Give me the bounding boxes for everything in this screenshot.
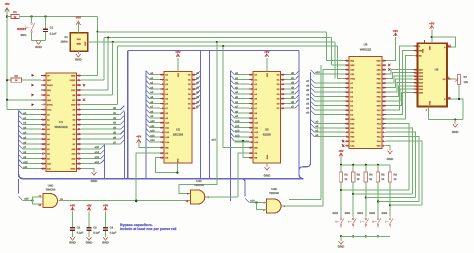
svg-text:C3: C3 [93,227,97,230]
svg-text:VCC: VCC [177,72,180,77]
svg-text:X1: X1 [64,35,68,39]
svg-text:10k: 10k [464,81,469,84]
svg-text:+5V: +5V [338,149,343,153]
svg-text:a14: a14 [150,139,155,142]
svg-text:+5V: +5V [175,50,180,54]
svg-text:U6: U6 [435,68,439,72]
svg-text:+5V: +5V [103,204,108,208]
svg-text:VDD: VDD [429,45,432,50]
svg-text:a10: a10 [235,120,240,123]
svg-text:U5: U5 [364,42,368,46]
svg-text:R4: R4 [369,173,373,176]
svg-text:VCC: VCC [47,109,52,112]
svg-text:a11: a11 [23,166,28,169]
svg-text:0.1µF: 0.1µF [77,232,84,235]
svg-text:VDD: VDD [376,59,381,62]
svg-text:a15: a15 [95,146,100,149]
svg-text:U1: U1 [59,120,63,124]
svg-text:SW4: SW4 [357,212,363,215]
svg-text:R7: R7 [464,76,468,79]
svg-text:a12: a12 [150,130,155,133]
svg-text:SW2: SW2 [332,212,338,215]
svg-text:R6: R6 [394,173,398,176]
svg-text:+5V: +5V [429,22,434,26]
svg-text:IRQ: IRQ [47,89,51,92]
svg-text:R2: R2 [14,75,18,78]
svg-text:a11: a11 [150,125,155,128]
svg-text:R/W: R/W [350,64,354,67]
svg-text:GND: GND [71,167,76,170]
svg-text:+5V: +5V [76,15,81,19]
svg-text:GND: GND [86,241,94,245]
svg-text:a10: a10 [150,120,155,123]
svg-text:a10: a10 [23,161,28,164]
svg-text:0.1µF: 0.1µF [50,32,57,35]
svg-text:VO: VO [442,78,445,81]
svg-text:VCC: VCC [266,72,269,77]
svg-text:74HC00: 74HC00 [46,188,56,191]
svg-text:GND: GND [338,245,346,249]
svg-text:U3: U3 [265,128,269,132]
svg-text:R3: R3 [357,173,361,176]
svg-text:VCC: VCC [77,38,82,41]
svg-text:U4D: U4D [48,184,54,188]
svg-text:W65C22: W65C22 [360,47,372,51]
svg-text:Include at least one per power: Include at least one per power rail [120,227,176,231]
svg-text:GND: GND [91,179,99,183]
svg-text:SYNC: SYNC [47,104,53,107]
svg-text:NC: NC [72,99,76,102]
svg-text:PH2O: PH2O [70,79,76,82]
svg-text:R/W: R/W [419,50,423,53]
svg-text:SW1: SW1 [20,33,27,37]
svg-text:RES: RES [71,74,76,77]
svg-text:SW6: SW6 [381,212,387,215]
svg-text:GND: GND [266,154,269,159]
svg-text:NMI: NMI [47,99,51,102]
svg-text:RES: RES [350,118,355,121]
svg-text:a14: a14 [95,151,100,154]
svg-text:RESET: RESET [17,27,27,31]
svg-text:GND: GND [35,45,43,49]
svg-text:a14: a14 [211,138,216,141]
svg-text:GND: GND [264,174,272,178]
svg-text:+5V: +5V [136,135,141,139]
svg-text:W65C02S: W65C02S [55,125,68,129]
svg-text:GND: GND [76,43,81,46]
svg-text:GND: GND [452,130,460,134]
svg-text:SW5: SW5 [369,212,375,215]
svg-text:a13: a13 [235,134,240,137]
svg-text:1MHz: 1MHz [60,40,68,44]
svg-text:+5V: +5V [393,29,398,33]
svg-text:GND: GND [387,157,395,161]
svg-text:GND: GND [176,158,179,163]
svg-text:+5V: +5V [264,50,269,54]
svg-text:R5: R5 [381,173,385,176]
svg-text:SO: SO [72,84,75,87]
svg-text:IRQ: IRQ [350,59,354,62]
svg-text:74HC00: 74HC00 [269,192,279,195]
svg-text:GND: GND [69,241,77,245]
svg-text:R1: R1 [13,10,17,14]
svg-text:62256: 62256 [263,132,271,136]
svg-text:+5V: +5V [70,204,75,208]
svg-text:74HC00: 74HC00 [194,184,204,187]
svg-text:a12: a12 [95,161,100,164]
svg-text:VSS: VSS [377,145,382,148]
svg-text:GND: GND [102,241,110,245]
svg-text:a11: a11 [235,125,240,128]
svg-text:VSS: VSS [429,100,432,105]
svg-text:a12: a12 [235,130,240,133]
svg-text:U4B: U4B [271,187,277,191]
svg-text:+5V: +5V [4,2,9,6]
svg-text:+5V: +5V [86,204,91,208]
svg-text:a13: a13 [150,134,155,137]
svg-text:C1: C1 [50,26,54,30]
svg-text:R2: R2 [344,173,348,176]
svg-text:a13: a13 [95,156,100,159]
svg-text:R/W: R/W [71,104,75,107]
svg-text:U2: U2 [176,128,180,132]
svg-text:C4: C4 [110,227,114,230]
svg-text:RDY: RDY [47,79,52,82]
svg-text:0.1µF: 0.1µF [110,232,117,235]
svg-text:PH1O: PH1O [47,84,53,87]
svg-text:SW3: SW3 [345,212,351,215]
svg-text:0.1µF: 0.1µF [93,232,100,235]
svg-text:C2: C2 [77,227,81,230]
svg-text:28C256: 28C256 [173,132,184,136]
svg-text:GND: GND [75,58,83,62]
svg-text:U4C: U4C [196,179,202,183]
